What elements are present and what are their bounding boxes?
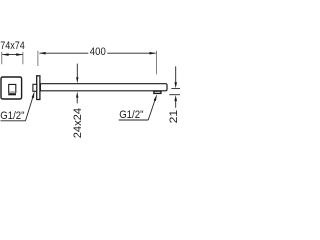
label G1/2 right leader arrowhead: [154, 94, 157, 101]
outlet nipple front view shading: [9, 91, 15, 93]
dim 21 upper arrowhead (pointing down): [174, 82, 177, 88]
svg-text:G1/2": G1/2": [0, 110, 24, 122]
wall plate front view (square escutcheon): [1, 77, 22, 99]
dim 24x24 upper arrow shaft: [76, 64, 78, 78]
dim 21 lower arrowhead (pointing up): [174, 95, 177, 101]
label G1/2 right landing line: [119, 119, 149, 121]
svg-text:400: 400: [90, 46, 106, 58]
svg-text:G1/2": G1/2": [119, 109, 143, 121]
dim 21 lower shaft: [175, 101, 177, 108]
svg-text:21: 21: [168, 110, 180, 124]
dim 21 tick lower: [169, 94, 180, 96]
label G1/2 left leader line: [26, 96, 34, 121]
dim 400 extension line right: [155, 51, 157, 74]
label G1/2 left landing line: [1, 120, 26, 122]
dim 400 dimension line right segment: [107, 52, 156, 54]
svg-text:74x74: 74x74: [0, 40, 25, 52]
dim 400 arrowhead left: [39, 52, 46, 55]
dim 24x24 upper arrowhead: [76, 77, 78, 83]
shower arm tube (side view): [40, 84, 167, 91]
dim 74x74 arrowhead right: [16, 53, 23, 56]
outlet nipple front view dark edge: [8, 93, 16, 95]
dim 74x74 arrowhead left: [2, 53, 9, 56]
svg-text:24x24: 24x24: [72, 108, 84, 138]
wall connector stub (G1/2 inlet): [33, 84, 37, 91]
wall plate side view: [37, 76, 40, 100]
dim 400 dimension line left segment: [39, 52, 88, 54]
outlet nipple side view: [154, 91, 161, 93]
dim 74x74 dimension line: [2, 54, 22, 56]
label G1/2 left leader arrowhead: [32, 91, 35, 98]
dim 21 tick upper: [171, 88, 180, 90]
dim 74x74 extension line left: [1, 52, 3, 64]
dim 24x24 lower arrow shaft: [76, 97, 78, 103]
arm cross-section opening (inner square, front view): [9, 84, 16, 93]
dim 21 upper shaft: [175, 66, 177, 83]
label G1/2 right leader line: [148, 99, 155, 120]
dim 400 extension line left: [37, 51, 39, 66]
dim 400 arrowhead right: [149, 52, 156, 55]
dim 74x74 extension line right: [22, 52, 24, 64]
dim 24x24 lower arrowhead: [76, 92, 78, 98]
